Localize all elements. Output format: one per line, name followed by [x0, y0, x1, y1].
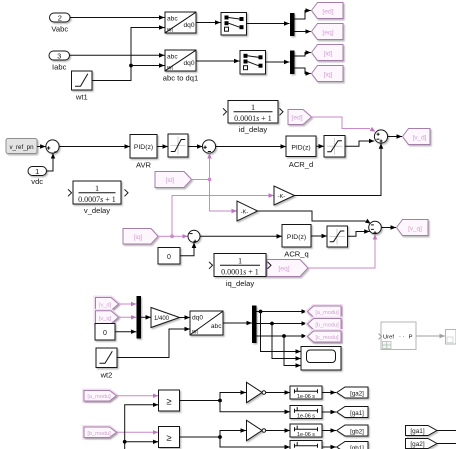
- wire dq1 to selector2: [196, 60, 240, 62]
- wire delay2 to ga1: [322, 411, 336, 413]
- wire ACR_d to saturation3: [316, 145, 324, 147]
- wire AVR to saturation1: [157, 146, 168, 148]
- wire delay1 to ga2: [322, 392, 336, 394]
- mux bar 1: [290, 13, 295, 36]
- svg-text:· ·: · ·: [399, 334, 405, 340]
- svg-text:[id]: [id]: [165, 177, 174, 184]
- svg-text:id_delay: id_delay: [239, 125, 267, 134]
- svg-text:[v_d]: [v_d]: [99, 303, 112, 309]
- wire ga2 from to edge: [437, 443, 456, 445]
- svg-text:[v_q]: [v_q]: [99, 316, 112, 322]
- wire gain to dq0-abc: [180, 317, 191, 319]
- saturation2: [327, 226, 348, 247]
- svg-text:[gb1]: [gb1]: [350, 445, 364, 449]
- delay block 4: [290, 441, 322, 449]
- svg-text:[ga1]: [ga1]: [350, 410, 364, 417]
- svg-text:1: 1: [95, 184, 99, 193]
- wire v_d to mux3: [119, 303, 137, 305]
- svg-text:AVR: AVR: [136, 161, 152, 170]
- svg-text:[a_modu]: [a_modu]: [87, 394, 111, 400]
- demux bar: [252, 306, 257, 344]
- ramp wt1: [72, 71, 93, 90]
- wire delay4 to gb1: [322, 446, 336, 448]
- wire wt2 to dq0-abc: [117, 329, 190, 358]
- svg-text:[id]: [id]: [323, 50, 332, 57]
- NOT gate 1: [247, 382, 263, 402]
- PID block ACR_q: [282, 225, 311, 248]
- wire dq0 to selector1: [196, 22, 221, 24]
- svg-text:PID(z): PID(z): [287, 234, 306, 241]
- svg-text:[iq]: [iq]: [133, 234, 142, 241]
- svg-text:≥: ≥: [166, 396, 171, 407]
- goto tag [iq]: [312, 66, 344, 82]
- svg-text:[b_modu]: [b_modu]: [315, 323, 339, 329]
- mux bar 2: [290, 51, 295, 75]
- PWM generator block (faded): [381, 322, 416, 350]
- svg-text:[eq]: [eq]: [322, 29, 333, 36]
- from tag [eq]: [267, 260, 308, 277]
- svg-text:dq0: dq0: [183, 22, 194, 29]
- svg-text:PID(z): PID(z): [134, 144, 153, 151]
- goto tag [b_modu]: [308, 319, 342, 330]
- svg-text:[ga2]: [ga2]: [410, 441, 424, 448]
- subsystem v_ref_pn: [6, 139, 37, 154]
- svg-text:0.0001s + 1: 0.0001s + 1: [234, 114, 272, 123]
- goto tag [ga2]: [337, 387, 368, 398]
- goto tag [a_modu]: [308, 306, 342, 317]
- transfer fn id_delay: [228, 101, 278, 124]
- wire sum1 to AVR: [59, 146, 130, 148]
- sum1: [46, 140, 59, 153]
- input port 3 Iabc: [49, 51, 70, 60]
- svg-text:dq0: dq0: [192, 315, 203, 322]
- transfer fn iq_delay: [214, 254, 266, 277]
- wire wt1 to both dq0 blocks: [92, 28, 165, 81]
- svg-text:3: 3: [57, 52, 61, 61]
- svg-text:1/400: 1/400: [154, 316, 170, 322]
- wire ed to sum3: [312, 117, 371, 129]
- delay block 3: [290, 424, 322, 437]
- wire v_ref_pn to sum1: [37, 146, 46, 148]
- gain -K- lower (id): [237, 201, 258, 221]
- svg-text:ACR_q: ACR_q: [284, 250, 308, 259]
- constant 0 (zero seq): [95, 324, 115, 341]
- from tag [iq]: [123, 229, 158, 245]
- goto tag [gb1]: [337, 442, 368, 449]
- NOT gate 2: [247, 420, 263, 440]
- relational operator comp1: [159, 390, 180, 411]
- scope: [301, 347, 341, 371]
- wire delay3 to gb2: [322, 430, 336, 432]
- wire NOT1 to delay1: [266, 392, 290, 394]
- svg-text:abc: abc: [211, 323, 222, 330]
- wire sum3 to goto v_d: [388, 136, 402, 138]
- wire dq0-abc to demux: [223, 322, 252, 324]
- svg-text:-K-: -K-: [241, 209, 249, 215]
- svg-text:[ed]: [ed]: [291, 115, 302, 122]
- wire sum4 to goto v_q: [381, 227, 396, 229]
- goto tag [c_modu]: [308, 331, 342, 342]
- from tag [v_d]: [96, 298, 119, 311]
- mux bar 3: [137, 296, 142, 339]
- svg-text:Vabc: Vabc: [51, 25, 68, 34]
- abc to dq1 block (lower): [165, 50, 196, 71]
- sum2: [202, 140, 215, 153]
- svg-text:v_ref_pn: v_ref_pn: [9, 144, 34, 151]
- wire demux to goto a_modu: [257, 311, 307, 313]
- svg-text:0.0007s + 1: 0.0007s + 1: [78, 195, 116, 204]
- svg-text:[gb2]: [gb2]: [350, 428, 364, 435]
- wire iq net: [158, 235, 172, 237]
- svg-text:wt1: wt1: [75, 93, 88, 102]
- svg-text:abc to dq1: abc to dq1: [163, 74, 198, 83]
- wire PWM to next (faded): [416, 335, 445, 337]
- svg-text:0.0001s + 1: 0.0001s + 1: [221, 268, 259, 277]
- goto tag [gb2]: [337, 425, 368, 436]
- wire mux3 to gain 1/400: [141, 316, 151, 318]
- wire b_modu to comp2: [117, 431, 159, 433]
- svg-text:[eq]: [eq]: [278, 266, 289, 273]
- from tag [v_q]: [96, 311, 119, 324]
- svg-text:0: 0: [103, 330, 107, 337]
- wire sum5 to ACR_q: [200, 235, 282, 237]
- gain -K- upper (iq): [274, 186, 295, 205]
- wire sum2 to ACR_d: [216, 146, 286, 148]
- svg-text:[c_modu]: [c_modu]: [315, 335, 338, 341]
- PID block ACR_d: [286, 136, 316, 157]
- sum5: [188, 230, 200, 242]
- wire ga1 from to edge: [437, 430, 456, 432]
- svg-text:Iabc: Iabc: [52, 63, 67, 72]
- svg-text:Uref: Uref: [383, 335, 394, 341]
- svg-text:1e-06 s: 1e-06 s: [297, 394, 315, 400]
- constant 0 (iq ref): [158, 248, 180, 265]
- svg-text:2: 2: [58, 14, 62, 23]
- PID block AVR: [130, 135, 157, 159]
- svg-text:[ga2]: [ga2]: [350, 390, 364, 397]
- wire saturation1 to sum2: [188, 146, 202, 148]
- ramp wt2: [96, 348, 117, 368]
- goto tag [id]: [312, 45, 344, 61]
- svg-text:vdc: vdc: [31, 177, 43, 186]
- svg-text:[b_modu]: [b_modu]: [87, 431, 111, 437]
- wire saturation2 to sum4: [348, 232, 370, 237]
- svg-text:1: 1: [35, 167, 39, 176]
- svg-text:0: 0: [167, 254, 171, 261]
- svg-text:1e-06 s: 1e-06 s: [297, 413, 315, 419]
- goto tag [ga1]: [337, 407, 368, 418]
- saturation3: [324, 136, 345, 158]
- svg-text:wt: wt: [166, 66, 173, 72]
- from tag [b_modu]: [84, 427, 117, 438]
- wire a_modu to comp1: [117, 395, 159, 397]
- wire mux2 to goto id: [295, 53, 311, 57]
- svg-text:dq0: dq0: [183, 60, 194, 67]
- wire Iabc to abc-dq1: [70, 54, 165, 56]
- svg-text:1e-06 s: 1e-06 s: [297, 432, 315, 438]
- wire eq to sum4: [308, 234, 375, 268]
- wire v_q to mux3: [119, 316, 137, 318]
- goto tag [eq]: [312, 24, 344, 40]
- input port 2 Vabc: [50, 13, 71, 22]
- svg-text:-K-: -K-: [278, 194, 286, 200]
- wire comp1 out: [180, 400, 221, 402]
- from tag [a_modu]: [84, 391, 117, 402]
- sum4: [369, 221, 382, 234]
- wire gain id to sum4: [258, 211, 366, 221]
- selector1: [221, 13, 247, 36]
- svg-text:wt: wt: [166, 28, 173, 34]
- wire comp2 out: [180, 436, 221, 438]
- wire selector2 to mux2: [266, 61, 290, 63]
- relational operator comp2: [159, 427, 180, 448]
- wire demux to goto c_modu: [257, 335, 307, 337]
- sum3: [374, 130, 387, 143]
- svg-text:abc: abc: [167, 54, 178, 61]
- input port 1 vdc: [28, 167, 47, 176]
- svg-text:[a_modu]: [a_modu]: [315, 310, 339, 316]
- svg-text:v_delay: v_delay: [84, 206, 110, 215]
- wire id net: [192, 179, 210, 181]
- wire carrier net: [125, 405, 159, 449]
- wire demux to goto b_modu: [257, 323, 307, 325]
- svg-text:[iq]: [iq]: [323, 71, 332, 78]
- wire ACR_q to saturation2: [311, 235, 327, 237]
- svg-text:wt: wt: [191, 330, 198, 336]
- from tag [ed]: [288, 110, 312, 125]
- svg-text:1: 1: [251, 103, 255, 112]
- svg-text:[ga1]: [ga1]: [410, 428, 424, 435]
- svg-text:P: P: [409, 335, 413, 341]
- svg-text:PID(z): PID(z): [291, 145, 310, 152]
- wire mux2 to goto iq: [295, 68, 311, 74]
- wire Vabc to abc-dq0: [70, 17, 165, 19]
- wire gain iq to sum3: [295, 143, 382, 195]
- svg-text:abc: abc: [167, 16, 178, 23]
- wire 0 to mux3: [115, 331, 136, 333]
- selector2: [240, 51, 266, 75]
- delay block 1: [290, 386, 322, 399]
- svg-text:iq_delay: iq_delay: [226, 279, 254, 288]
- saturation1: [168, 134, 188, 157]
- svg-text:[ed]: [ed]: [322, 8, 333, 15]
- svg-text:≥: ≥: [166, 433, 171, 444]
- wire NOT2 to delay3: [266, 430, 290, 432]
- wire selector1 to mux1: [247, 23, 290, 25]
- wire 0 to sum5: [180, 243, 194, 256]
- dq0 to abc block: [190, 311, 223, 335]
- transfer fn v_delay: [73, 181, 121, 204]
- svg-text:ACR_d: ACR_d: [289, 160, 313, 169]
- wire vdc to sum1: [47, 153, 54, 171]
- svg-text:1: 1: [238, 256, 242, 265]
- from tag [ga1] right: [406, 426, 437, 436]
- from tag [id]: [155, 172, 192, 188]
- faded block at right edge: [446, 330, 456, 345]
- goto tag [v_d]: [403, 129, 431, 145]
- goto tag [v_q]: [397, 220, 429, 236]
- goto tag [ed]: [312, 3, 344, 19]
- from tag [ga2] right: [406, 439, 437, 449]
- gain 1/400: [151, 308, 180, 328]
- svg-text:[v_d]: [v_d]: [413, 134, 427, 141]
- wire mux1 to goto eq: [295, 31, 311, 33]
- svg-text:wt2: wt2: [100, 371, 113, 380]
- abc to dq0 block (upper): [165, 12, 196, 33]
- wire mux1 to goto ed: [295, 11, 311, 20]
- wire saturation3 to sum3: [345, 141, 374, 146]
- svg-text:[v_q]: [v_q]: [408, 225, 422, 232]
- delay block 2: [290, 406, 322, 419]
